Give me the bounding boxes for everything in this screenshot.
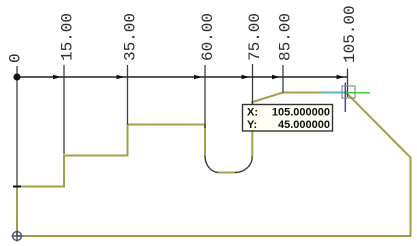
extension line x=0 — [16, 66, 18, 187]
svg-text:Y:: Y: — [247, 119, 257, 131]
pickbox — [342, 86, 355, 98]
svg-text:35.00: 35.00 — [122, 13, 140, 61]
svg-text:0: 0 — [7, 53, 25, 63]
wire notch left side (60,35)-(60,25) — [204, 125, 206, 157]
wire step (35,35)-(60,35) — [128, 124, 206, 126]
crosshair horizontal left arm (cyan) — [322, 92, 347, 94]
tick at (0,15) — [13, 186, 21, 188]
svg-text:85.00: 85.00 — [277, 13, 295, 61]
wire chamfer (105,45)-(125,25) — [347, 93, 411, 158]
crosshair horizontal right arm (green) — [347, 92, 371, 94]
wire slope (75,42)-(85,45) — [253, 93, 284, 103]
wire left edge lower (0,0)-(0,15) — [16, 187, 18, 237]
extension line x=15 — [63, 65, 65, 154]
svg-text:105.000000: 105.000000 — [272, 107, 330, 119]
wire right edge (125,25)-(125,0) — [410, 158, 412, 237]
svg-text:15.00: 15.00 — [59, 13, 77, 61]
dimension arrowheads — [53, 75, 345, 79]
svg-text:105.00: 105.00 — [341, 5, 359, 63]
wire step (35,25)-(35,35) — [127, 125, 129, 156]
wire bottom edge (0,0)-(125,0) — [17, 235, 411, 237]
svg-text:60.00: 60.00 — [199, 13, 217, 61]
wire step (0,15)-(15,15) — [17, 186, 64, 188]
arc notch left fillet — [205, 156, 218, 173]
arrow at 105 — [337, 75, 345, 79]
arrow at 85 — [272, 75, 280, 79]
wire top edge (85,45)-(105,45) — [283, 92, 347, 94]
extension line x=85 — [282, 65, 284, 93]
UCS origin marker — [12, 231, 23, 242]
svg-text:X:: X: — [247, 107, 258, 119]
svg-text:75.00: 75.00 — [246, 13, 264, 61]
dimension line — [17, 76, 348, 78]
wire step (15,25)-(35,25) — [64, 155, 128, 157]
arrow at 15 — [53, 75, 61, 79]
crosshair vertical (blue) — [344, 83, 346, 113]
extension line x=60 — [204, 65, 206, 128]
arrow at 60 — [194, 75, 202, 79]
svg-text:45.000000: 45.000000 — [278, 119, 330, 131]
arc notch right fillet — [235, 157, 252, 173]
profile outline (olive polyline) — [17, 93, 411, 237]
extension line x=105 — [347, 69, 349, 98]
coordinate tooltip box — [243, 105, 333, 132]
wire notch right side (75,25)-(75,42) — [251, 102, 253, 157]
arrow at 75 — [242, 75, 250, 79]
dimension extension lines (dark gray) — [17, 64, 348, 187]
arrow at 35 — [117, 75, 125, 79]
wire notch flat bottom — [218, 172, 235, 174]
notch fillet arcs (dark) — [205, 156, 252, 173]
wire step (15,15)-(15,25) — [63, 156, 65, 187]
extension line x=35 — [127, 65, 129, 125]
extension line x=75 — [252, 64, 254, 104]
dimension origin dot — [13, 73, 20, 80]
